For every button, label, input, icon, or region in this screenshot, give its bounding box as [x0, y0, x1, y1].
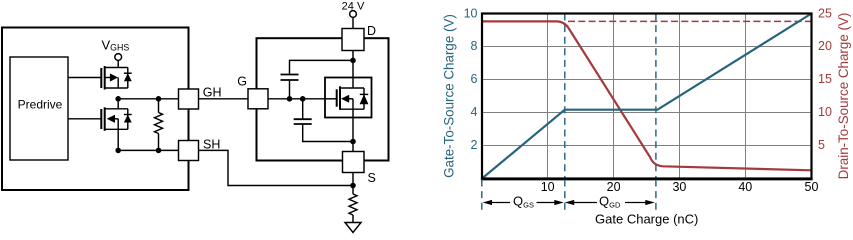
- svg-text:50: 50: [805, 180, 819, 194]
- junction resistor top: [156, 96, 162, 102]
- junction mid node: [115, 96, 121, 102]
- left tick labels: [464, 6, 478, 152]
- junction sense node: [350, 183, 356, 189]
- gridlines: [482, 14, 812, 179]
- svg-text:Gate Charge (nC): Gate Charge (nC): [595, 212, 698, 227]
- external FET outline rectangle: [257, 38, 389, 160]
- node VGHS terminal circle: [115, 54, 122, 61]
- wire bottom node to SH: [118, 149, 178, 151]
- svg-text:Gate-To-Source Charge (V): Gate-To-Source Charge (V): [442, 14, 457, 178]
- capacitor Cgd: [281, 60, 354, 98]
- wire D down to FET: [352, 51, 354, 78]
- svg-text:10: 10: [818, 105, 832, 119]
- dashed red plateau line: [568, 20, 812, 22]
- transistor power FET: [325, 78, 368, 118]
- node 24V supply circle: [350, 11, 357, 18]
- pin box G: [248, 89, 268, 109]
- right tick labels: [818, 6, 832, 152]
- wire mid node to GH: [118, 98, 178, 100]
- x axis line: [481, 178, 813, 180]
- svg-text:40: 40: [738, 180, 752, 194]
- wire: predrive to upper FET gate: [68, 77, 101, 79]
- svg-text:10: 10: [541, 180, 555, 194]
- dashed verticals below axis: [482, 180, 656, 211]
- wire lower FET source down: [117, 129, 119, 150]
- svg-text:Drain-To-Source Charge (V): Drain-To-Source Charge (V): [836, 13, 851, 180]
- gate driver IC boundary rectangle: [2, 28, 189, 191]
- x tick labels: [541, 180, 819, 194]
- pin box D: [342, 29, 364, 51]
- junction Cgs gate: [300, 96, 306, 102]
- transistor lower internal FET: [101, 99, 131, 131]
- wire 24V to D: [352, 17, 354, 28]
- red curve Vds: [482, 21, 812, 170]
- wire SH to source node: [199, 150, 354, 185]
- pin box GH: [179, 89, 199, 109]
- svg-text:5: 5: [818, 138, 825, 152]
- svg-text:SH: SH: [203, 138, 220, 152]
- capacitor Cgs: [294, 99, 353, 142]
- junction Cgd top: [350, 58, 356, 64]
- svg-text:20: 20: [607, 180, 621, 194]
- svg-text:D: D: [367, 24, 376, 38]
- power FET inner box: [325, 78, 372, 118]
- svg-text:15: 15: [818, 72, 832, 86]
- pin box S: [343, 152, 365, 173]
- svg-text:GH: GH: [203, 85, 222, 99]
- ground: [345, 223, 361, 233]
- junction bottom node: [115, 148, 121, 154]
- wire resistor to ground: [352, 215, 354, 223]
- pin box SH: [179, 141, 199, 161]
- svg-text:S: S: [368, 171, 376, 185]
- svg-text:6: 6: [471, 72, 478, 86]
- wire GH to G: [199, 98, 249, 100]
- svg-text:25: 25: [818, 6, 832, 20]
- resistor internal pulldown: [155, 99, 163, 151]
- svg-text:4: 4: [471, 105, 478, 119]
- transistor upper internal FET: [101, 60, 131, 89]
- junction resistor bottom: [156, 148, 162, 154]
- Qgs arrow annotation: [491, 202, 555, 204]
- svg-text:Predrive: Predrive: [18, 98, 63, 112]
- wire: predrive to lower FET gate: [68, 118, 101, 120]
- resistor sense: [349, 194, 357, 215]
- wire S to sense node: [352, 173, 354, 195]
- blue curve Vgs: [482, 14, 812, 179]
- junction Cgs source: [350, 139, 356, 145]
- dashed marker verticals in plot: [565, 14, 656, 179]
- junction Cgd gate: [287, 96, 293, 102]
- svg-text:8: 8: [471, 39, 478, 53]
- Qgd arrow annotation: [574, 202, 647, 204]
- svg-text:G: G: [237, 75, 247, 89]
- plot border: [482, 14, 812, 179]
- wire G to gate network: [268, 98, 325, 100]
- svg-text:30: 30: [672, 180, 686, 194]
- svg-text:24 V: 24 V: [342, 1, 365, 13]
- svg-text:10: 10: [464, 6, 478, 20]
- predrive block: [10, 57, 68, 160]
- wire FET source to S: [352, 118, 354, 152]
- svg-text:20: 20: [818, 39, 832, 53]
- svg-text:2: 2: [471, 138, 478, 152]
